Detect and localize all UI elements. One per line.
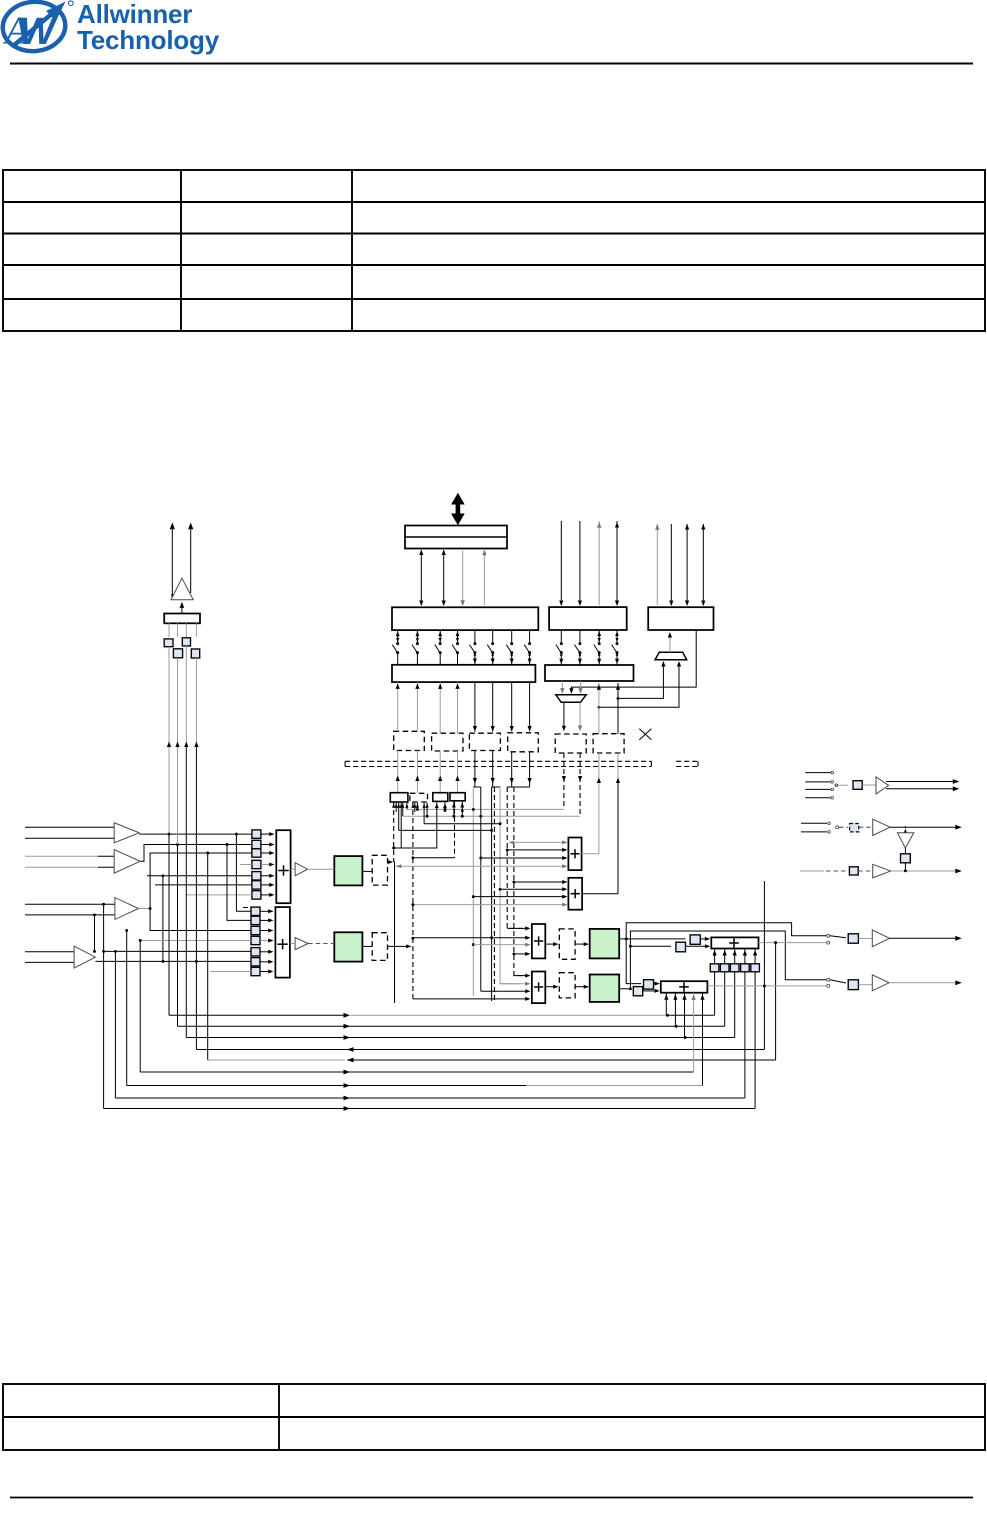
svg-text:W: W [19, 11, 58, 53]
